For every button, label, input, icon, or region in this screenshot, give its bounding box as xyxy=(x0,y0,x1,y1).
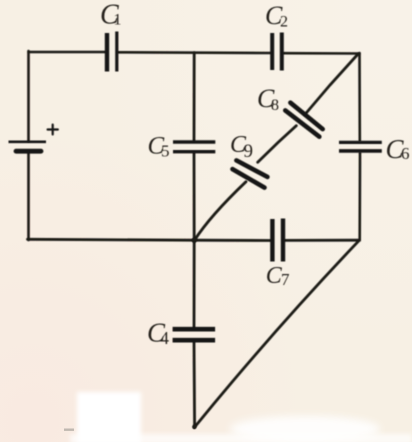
wire middle vertical: C5 to node xyxy=(193,153,196,240)
gray dash mark bottom-left xyxy=(64,429,74,431)
capacitor C1 plates xyxy=(105,33,109,72)
wire diagonal segment C8 to top-right corner xyxy=(305,54,359,115)
wire top-right: C2 to top-right corner xyxy=(283,52,360,55)
white strip bottom edge xyxy=(70,434,412,442)
svg-text:8: 8 xyxy=(271,97,279,114)
capacitor C5 plates xyxy=(173,140,215,143)
wire long diagonal: right node to bottom tip xyxy=(194,241,358,428)
junction blob at middle node xyxy=(192,238,197,243)
white patch bottom-left xyxy=(77,392,141,442)
svg-text:4: 4 xyxy=(160,328,169,348)
wire top-middle: C1 to C2 xyxy=(118,51,271,54)
capacitor C2 plates xyxy=(270,33,274,70)
svg-text:9: 9 xyxy=(244,141,254,162)
wire right vertical lower: C6 to right node xyxy=(358,153,361,240)
wire bottom-right: C7 to right node xyxy=(284,239,360,242)
svg-text:7: 7 xyxy=(281,270,290,289)
svg-text:2: 2 xyxy=(280,14,288,31)
battery plus sign xyxy=(48,125,58,135)
wire top-left: left corner to C1 xyxy=(29,51,107,54)
capacitor C9 plates (diagonal) xyxy=(236,160,267,177)
white blob bottom-right xyxy=(230,416,380,442)
capacitor C6 plates xyxy=(339,141,382,144)
wire bottom-middle: node to C7 xyxy=(194,239,271,242)
wire diagonal segment node to C9 xyxy=(194,182,246,241)
capacitor C7 plates xyxy=(270,219,274,262)
svg-text:5: 5 xyxy=(161,142,170,161)
wire middle vertical lower: node to C4 xyxy=(193,240,196,328)
svg-text:6: 6 xyxy=(401,144,410,163)
capacitor C4 plates xyxy=(173,327,216,332)
wire right vertical upper: corner to C6 xyxy=(358,53,361,141)
wire middle vertical bottom: C4 to tip xyxy=(193,342,196,427)
wire middle vertical top: top wire to C5 xyxy=(193,53,196,141)
junction blob at bottom tip xyxy=(192,425,196,429)
wire diagonal segment C9 to C8 xyxy=(258,126,297,163)
capacitor C8 plates (diagonal) xyxy=(290,103,322,129)
wire bottom-left: left corner to middle node xyxy=(28,238,195,242)
battery plates xyxy=(9,141,47,144)
wire left vertical lower: battery to bottom wire xyxy=(27,152,30,240)
wire left vertical upper: corner to battery xyxy=(27,51,30,141)
svg-text:1: 1 xyxy=(114,12,122,29)
